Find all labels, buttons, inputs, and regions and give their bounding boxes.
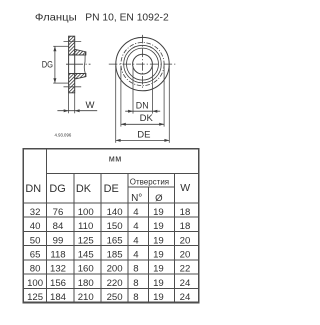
svg-text:156: 156 bbox=[50, 278, 66, 289]
flange plate section upper outline bbox=[69, 36, 75, 55]
plate bore opening edge right bbox=[74, 55, 76, 74]
svg-text:4.93.096: 4.93.096 bbox=[55, 133, 72, 138]
line A upper (crossing plate) bbox=[64, 41, 82, 43]
svg-text:DE: DE bbox=[137, 129, 150, 140]
svg-text:250: 250 bbox=[107, 292, 123, 303]
svg-text:76: 76 bbox=[53, 207, 64, 218]
svg-text:165: 165 bbox=[107, 235, 123, 246]
svg-text:125: 125 bbox=[27, 292, 43, 303]
svg-text:100: 100 bbox=[78, 207, 94, 218]
svg-text:N°: N° bbox=[131, 193, 142, 204]
svg-text:150: 150 bbox=[107, 221, 123, 232]
raised face ring outer bbox=[124, 45, 162, 83]
svg-text:80: 80 bbox=[30, 264, 41, 275]
svg-text:Ø: Ø bbox=[155, 193, 163, 204]
DN dimension line outside arrows bbox=[125, 110, 160, 113]
DK extension line right bbox=[163, 66, 165, 127]
bolt circle DK (dash-dot) bbox=[121, 43, 164, 86]
bore line upper bbox=[69, 54, 86, 56]
DG extension line lower bbox=[53, 82, 68, 84]
svg-text:220: 220 bbox=[107, 278, 123, 289]
svg-text:40: 40 bbox=[30, 221, 41, 232]
svg-text:19: 19 bbox=[153, 278, 164, 289]
svg-text:132: 132 bbox=[50, 264, 66, 275]
svg-text:19: 19 bbox=[153, 292, 164, 303]
svg-text:140: 140 bbox=[107, 207, 123, 218]
svg-text:19: 19 bbox=[153, 250, 164, 261]
svg-text:4: 4 bbox=[133, 221, 139, 232]
svg-text:PN 10, EN 1092-2: PN 10, EN 1092-2 bbox=[85, 12, 169, 23]
svg-text:184: 184 bbox=[50, 292, 67, 303]
table header texts bbox=[25, 153, 190, 204]
W dimension line with outside arrows bbox=[57, 109, 97, 112]
DE extension line left bbox=[115, 66, 117, 143]
svg-text:8: 8 bbox=[133, 292, 138, 303]
front view: outer circle (flange OD) bbox=[116, 37, 169, 90]
svg-text:20: 20 bbox=[180, 235, 191, 246]
DN extension line right bbox=[151, 66, 153, 114]
svg-text:99: 99 bbox=[53, 235, 64, 246]
svg-text:145: 145 bbox=[78, 250, 94, 261]
svg-text:Фланцы: Фланцы bbox=[35, 12, 77, 23]
svg-text:Отверстия: Отверстия bbox=[130, 176, 170, 186]
svg-text:24: 24 bbox=[180, 278, 191, 289]
svg-text:DK: DK bbox=[76, 183, 92, 195]
pipe bore circle bbox=[133, 54, 153, 74]
bore line lower bbox=[69, 73, 86, 75]
W extension line left bbox=[68, 93, 70, 114]
W extension line right bbox=[74, 93, 76, 114]
svg-text:DK: DK bbox=[140, 113, 154, 124]
DG extension line upper bbox=[53, 45, 68, 47]
svg-text:19: 19 bbox=[153, 235, 164, 246]
svg-text:125: 125 bbox=[78, 235, 94, 246]
DE dimension line inside arrows bbox=[116, 139, 170, 142]
svg-text:W: W bbox=[180, 182, 190, 194]
svg-text:32: 32 bbox=[30, 207, 41, 218]
section hatching bbox=[0, 20, 162, 104]
svg-text:4: 4 bbox=[133, 207, 139, 218]
table grid bbox=[23, 149, 199, 303]
svg-text:84: 84 bbox=[53, 221, 64, 232]
DG dimension line with arrows bbox=[53, 46, 56, 83]
horizontal centerline front view bbox=[109, 63, 177, 65]
svg-text:DG: DG bbox=[49, 183, 65, 195]
svg-text:мм: мм bbox=[109, 153, 122, 163]
svg-text:20: 20 bbox=[180, 250, 191, 261]
svg-text:18: 18 bbox=[180, 221, 191, 232]
svg-text:19: 19 bbox=[153, 264, 164, 275]
pipe break line bbox=[84, 52, 86, 77]
svg-text:W: W bbox=[86, 100, 95, 111]
svg-text:19: 19 bbox=[153, 221, 164, 232]
svg-text:19: 19 bbox=[153, 207, 164, 218]
svg-text:4: 4 bbox=[133, 250, 139, 261]
svg-text:24: 24 bbox=[180, 292, 191, 303]
svg-text:65: 65 bbox=[30, 250, 41, 261]
svg-text:22: 22 bbox=[180, 264, 191, 275]
DK extension line left bbox=[120, 66, 122, 127]
centerline left figure (dash-dot axis) bbox=[66, 63, 91, 65]
svg-text:185: 185 bbox=[107, 250, 123, 261]
flange plate section lower outline bbox=[69, 74, 75, 93]
svg-text:DN: DN bbox=[136, 100, 149, 111]
svg-text:18: 18 bbox=[180, 207, 191, 218]
svg-text:200: 200 bbox=[107, 264, 123, 275]
svg-text:110: 110 bbox=[78, 221, 93, 232]
svg-text:180: 180 bbox=[78, 278, 94, 289]
line A lower (crossing plate) bbox=[64, 86, 82, 88]
vertical centerline front view bbox=[142, 35, 144, 89]
table data bbox=[27, 207, 191, 303]
svg-text:4: 4 bbox=[133, 235, 139, 246]
svg-text:DN: DN bbox=[25, 183, 41, 195]
svg-text:100: 100 bbox=[27, 278, 43, 289]
svg-text:118: 118 bbox=[50, 250, 65, 261]
DE extension line right bbox=[168, 66, 170, 143]
raised face ring inner bbox=[127, 48, 159, 80]
DN extension line left bbox=[132, 66, 134, 114]
svg-text:210: 210 bbox=[78, 292, 94, 303]
plate bore opening edge left bbox=[68, 55, 70, 74]
svg-text:50: 50 bbox=[30, 235, 41, 246]
svg-text:DE: DE bbox=[104, 183, 119, 195]
svg-text:8: 8 bbox=[133, 278, 138, 289]
DK dimension line inside arrows bbox=[121, 123, 164, 126]
hub lower (pipe neck, hatched) bbox=[75, 74, 86, 80]
svg-text:DG: DG bbox=[42, 58, 53, 69]
svg-text:8: 8 bbox=[133, 264, 138, 275]
svg-text:160: 160 bbox=[78, 264, 94, 275]
hub upper (pipe neck, hatched) bbox=[75, 49, 86, 55]
